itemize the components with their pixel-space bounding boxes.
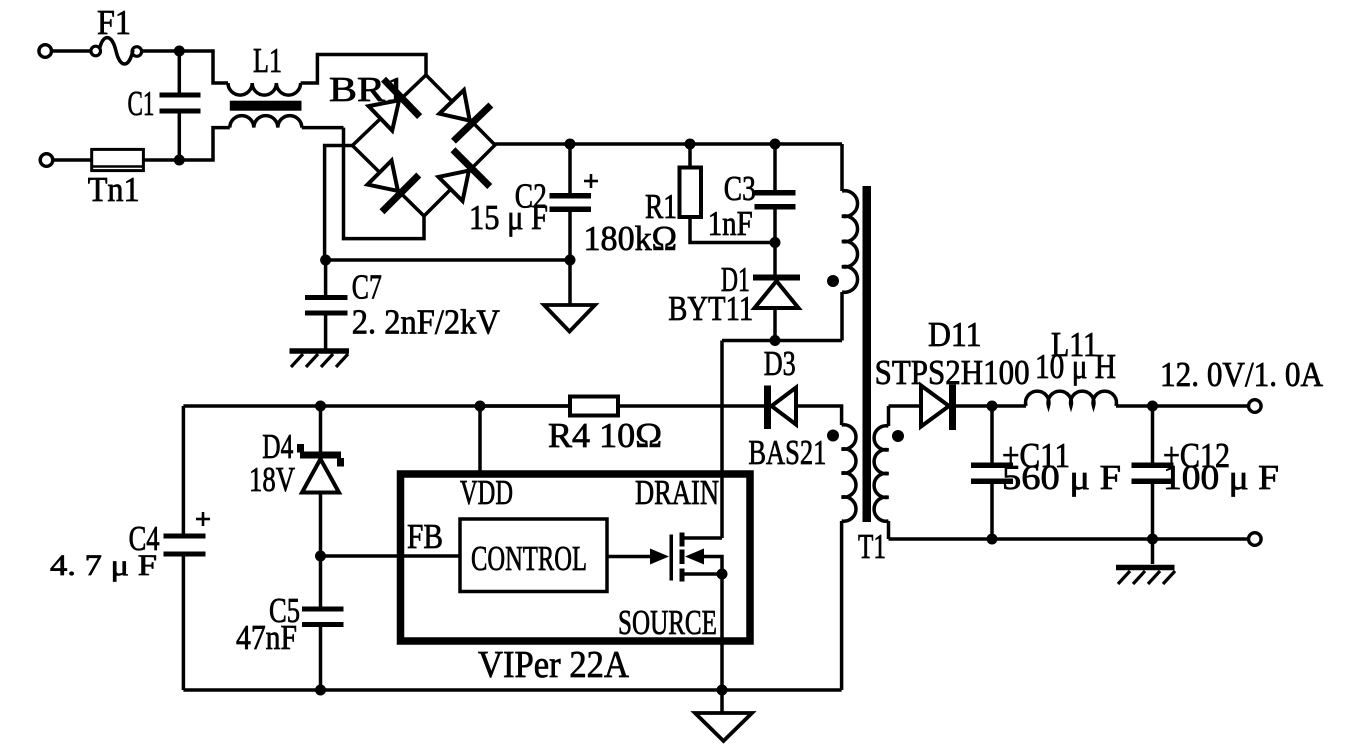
wire: bottom rail [183, 688, 841, 692]
wire: C2 to minus rail [568, 212, 572, 260]
node: primary phase dot [827, 275, 839, 287]
svg-text:VIPer 22A: VIPer 22A [478, 644, 629, 686]
terminal: output positive [1249, 400, 1262, 413]
wire: input to Tn1 [53, 158, 92, 162]
node: minus rail at C2 [565, 255, 576, 266]
svg-text:15 μ F: 15 μ F [469, 198, 548, 237]
ground (triangle) at source [695, 713, 752, 741]
svg-text:D3: D3 [764, 344, 796, 383]
earth ground at output [1116, 539, 1175, 584]
wire: rail to C3 [773, 144, 777, 190]
wire: rail to D4 [319, 406, 323, 452]
svg-text:47nF: 47nF [236, 618, 297, 657]
wire: FB node to CONTROL [321, 554, 461, 558]
label C2 plus sign [584, 174, 598, 188]
svg-text:CONTROL: CONTROL [471, 539, 587, 578]
terminal: AC line input [39, 45, 52, 58]
node: rail junction at R1 [685, 139, 696, 150]
wire: secondary top to D11 [889, 404, 922, 408]
svg-text:100 μ F: 100 μ F [1163, 458, 1279, 497]
svg-text:F1: F1 [97, 3, 131, 42]
svg-text:VDD: VDD [460, 473, 513, 512]
svg-text:BR1: BR1 [329, 70, 406, 109]
node: bottom rail at source [717, 685, 728, 696]
diode D3 [764, 386, 796, 430]
wire: L11 to output terminal [1116, 404, 1248, 408]
wire: D11 to L11 [956, 404, 1026, 408]
svg-text:SOURCE: SOURCE [618, 603, 717, 642]
wire: node A down to C1 [178, 51, 182, 93]
inductor L11 [1026, 391, 1117, 406]
wire: down and around to bridge bottom corner [344, 128, 425, 239]
svg-text:18V: 18V [249, 460, 295, 499]
node: output junction at C12 [1147, 401, 1158, 412]
node: VDD rail at D4 [315, 401, 326, 412]
transformer T1 core [863, 186, 872, 522]
transformer T1 secondary winding [874, 406, 888, 539]
fuse F1 [91, 38, 142, 64]
wire: L1 top to bridge top corner [301, 55, 426, 84]
terminal: output negative [1249, 533, 1262, 546]
wire: snubber row to primary bottom [722, 339, 842, 343]
svg-text:C7: C7 [352, 268, 382, 307]
node: rail junction at C3 [770, 139, 781, 150]
CONTROL block [460, 519, 607, 592]
svg-text:C3: C3 [724, 169, 756, 208]
inductor L1 (common-mode choke) [228, 83, 302, 128]
node: bottom rail at C11 [987, 534, 998, 545]
terminal: AC neutral input [40, 154, 53, 167]
transformer T1 auxiliary winding [842, 425, 856, 690]
wire: channel bottom to source node [685, 572, 723, 576]
wire: HV rail from bridge plus corner to transformer [493, 142, 842, 146]
node A junction [174, 46, 185, 57]
wire: C1 to node B [178, 114, 182, 161]
transistor Q1 MOSFET [670, 533, 685, 582]
svg-text:BYT11: BYT11 [668, 289, 753, 328]
node: auxiliary phase dot [827, 430, 839, 442]
diode D1 [753, 275, 800, 309]
svg-text:C1: C1 [128, 84, 155, 123]
transistor Q1 MOSFET gate arrow [650, 549, 669, 565]
wire: input to fuse [52, 49, 92, 53]
transistor Q1 source arrow [685, 549, 704, 565]
svg-text:560 μ F: 560 μ F [1002, 458, 1121, 497]
svg-text:10 μ H: 10 μ H [1035, 347, 1116, 386]
svg-text:STPS2H100: STPS2H100 [875, 353, 1030, 392]
label C4 plus sign [196, 512, 210, 526]
capacitor C2 [550, 193, 592, 212]
capacitor C12 [1132, 406, 1174, 539]
node: source junction [717, 569, 728, 580]
zener diode D4 [297, 444, 344, 493]
wire: stub to ground [720, 690, 724, 713]
node: minus rail at C7 [320, 255, 331, 266]
svg-text:D11: D11 [928, 315, 982, 354]
wire: fuse to node A [142, 49, 180, 53]
wire: L1 bottom toward bridge [302, 126, 344, 130]
wire: R4 to D3 anode [618, 404, 772, 408]
wire: rail down to C2 [568, 144, 572, 193]
wire: rail to R4 [480, 404, 570, 408]
node: snubber junction [770, 335, 781, 346]
wire: source down to bottom rail [720, 574, 724, 690]
svg-text:2. 2nF/2kV: 2. 2nF/2kV [352, 303, 500, 342]
svg-text:12. 0V/1. 0A: 12. 0V/1. 0A [1160, 355, 1324, 394]
thermistor Tn1 [92, 149, 144, 170]
wire: node A to L1 top [179, 51, 228, 83]
wire: left column [182, 406, 186, 690]
transformer T1 primary winding [842, 144, 858, 341]
capacitor C11 [971, 406, 1013, 539]
svg-text:1nF: 1nF [708, 204, 753, 243]
wire: stub to ground triangle [568, 260, 572, 305]
wire: node B to L1 bottom [179, 128, 230, 160]
wire: D3 to auxiliary winding [796, 406, 842, 425]
wire: drain line down to MOSFET [720, 341, 724, 539]
svg-text:R4 10Ω: R4 10Ω [548, 416, 662, 455]
resistor R1 [680, 168, 702, 218]
capacitor C3 [755, 190, 796, 210]
node B junction [174, 155, 185, 166]
capacitor C1 [160, 93, 201, 114]
node: bottom rail at C5 [315, 685, 326, 696]
wire: output bottom rail [889, 537, 1249, 541]
svg-text:BAS21: BAS21 [748, 433, 826, 472]
svg-text:T1: T1 [858, 527, 886, 566]
node: rail junction at C2 [565, 139, 576, 150]
svg-text:FB: FB [407, 517, 443, 556]
node: bottom rail at C12 [1147, 534, 1158, 545]
IC U1 VIPer22A body [401, 474, 751, 641]
wire: rail to R1 [688, 144, 692, 168]
svg-text:4. 7 μ F: 4. 7 μ F [50, 549, 157, 582]
wire: D1 anode to snubber row [773, 308, 777, 341]
wire: clamp node to D1 [773, 243, 777, 275]
diode D11 [921, 385, 956, 431]
node: VDD junction above IC [475, 401, 486, 412]
capacitor C5 [302, 556, 344, 690]
wire: VDD rail row [183, 404, 570, 408]
ground (triangle) at C2 [544, 305, 595, 332]
wire: R1 bottom to clamp node [690, 217, 775, 243]
node: secondary phase dot [892, 430, 904, 442]
wire: source arrow to source node [703, 557, 722, 575]
wire: CONTROL to gate [607, 555, 652, 559]
wire: bridge negative corner to ground rail [325, 146, 353, 261]
svg-text:180kΩ: 180kΩ [584, 219, 678, 258]
node: clamp node junction [770, 237, 781, 248]
capacitor C4 [164, 534, 206, 557]
capacitor C7 [305, 260, 348, 349]
wire: D4 to FB node [319, 493, 323, 557]
bridge rectifier BR1 [352, 75, 495, 216]
wire: drain contact [685, 536, 723, 540]
svg-text:Tn1: Tn1 [88, 170, 140, 209]
svg-text:DRAIN: DRAIN [635, 473, 719, 512]
node: output LC junction [987, 401, 998, 412]
wire: minus rail C7 to C2 [326, 258, 570, 262]
wire: C3 to clamp node [773, 210, 777, 243]
svg-text:L1: L1 [253, 41, 282, 80]
wire: VDD pin drop [478, 406, 482, 474]
node: FB junction [315, 551, 326, 562]
resistor R4 [570, 397, 618, 416]
wire: Tn1 to node B [143, 158, 179, 162]
earth ground at C7 [290, 351, 350, 367]
